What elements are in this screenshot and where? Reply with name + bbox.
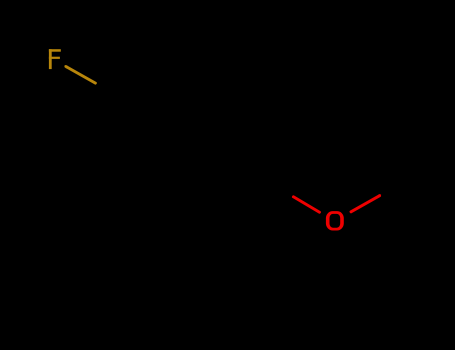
bond O-CH3 right (half-bond at O atom) (351, 196, 380, 212)
bond C-O left (half-bond at O atom) (293, 197, 319, 212)
bond C-F (half-bond at F atom) (66, 67, 96, 84)
oxygen atom label O : inner counter (330, 214, 341, 228)
fluorine atom label F (49, 49, 61, 69)
tapered tip of C-F bond (64, 65, 67, 68)
tapered tip of O-CH3 bond (379, 194, 382, 197)
oxygen atom label O : outer shape (326, 211, 344, 230)
